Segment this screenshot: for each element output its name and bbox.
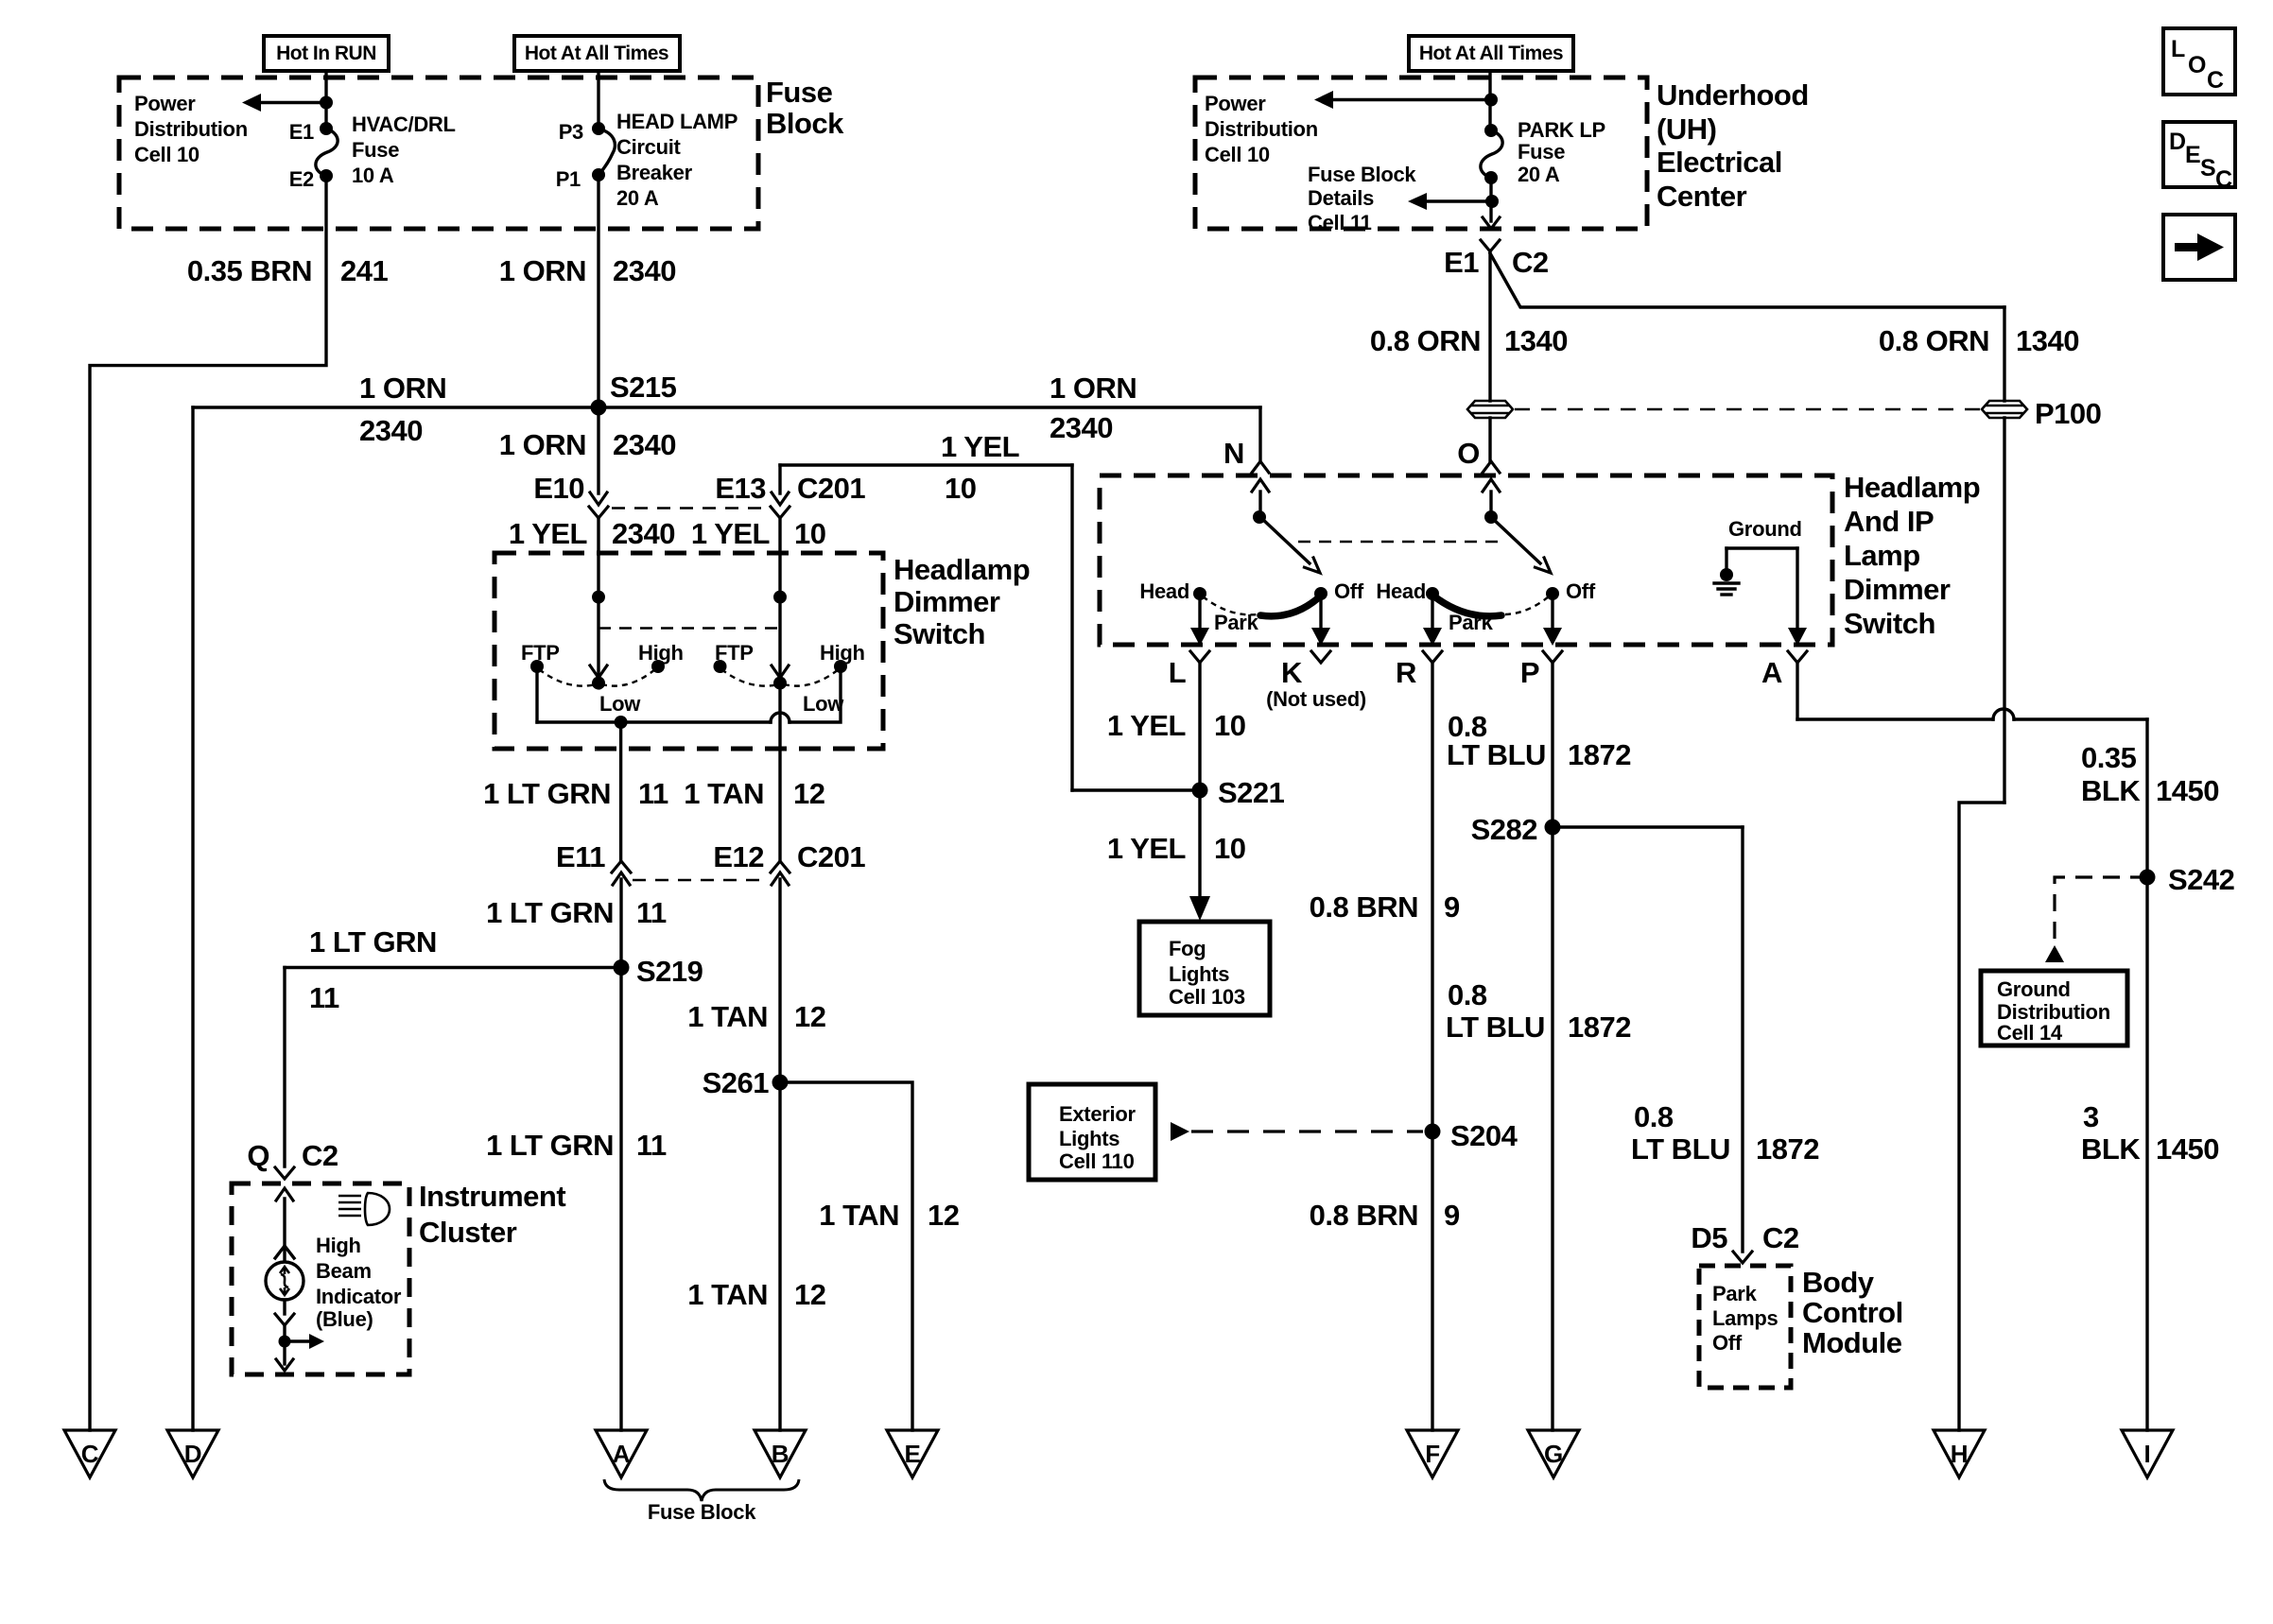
svg-text:10 A: 10 A	[352, 164, 394, 187]
svg-text:1 ORN: 1 ORN	[499, 254, 586, 287]
svg-text:HEAD LAMP: HEAD LAMP	[616, 110, 737, 133]
svg-text:Breaker: Breaker	[616, 161, 693, 184]
svg-text:P1: P1	[556, 167, 581, 191]
svg-text:Instrument: Instrument	[419, 1180, 565, 1213]
svg-text:1 TAN: 1 TAN	[819, 1199, 899, 1232]
svg-text:1 ORN: 1 ORN	[359, 371, 446, 405]
svg-text:E1: E1	[289, 120, 314, 144]
svg-text:HVAC/DRL: HVAC/DRL	[352, 112, 456, 136]
svg-text:1 YEL: 1 YEL	[1107, 832, 1186, 865]
svg-text:E: E	[904, 1440, 920, 1468]
svg-text:Head: Head	[1139, 579, 1189, 603]
svg-text:High: High	[316, 1234, 361, 1257]
svg-text:Headlamp: Headlamp	[1844, 471, 1980, 504]
svg-text:Details: Details	[1308, 186, 1374, 210]
svg-text:N: N	[1223, 437, 1244, 470]
svg-text:0.8 ORN: 0.8 ORN	[1370, 324, 1481, 357]
svg-text:Distribution: Distribution	[134, 117, 248, 141]
svg-text:1 ORN: 1 ORN	[1050, 371, 1136, 405]
svg-text:Circuit: Circuit	[616, 135, 682, 159]
svg-text:0.8 ORN: 0.8 ORN	[1879, 324, 1989, 357]
svg-text:20 A: 20 A	[1518, 163, 1560, 186]
svg-text:R: R	[1396, 656, 1416, 689]
svg-text:S261: S261	[703, 1066, 770, 1099]
svg-text:0.8 BRN: 0.8 BRN	[1310, 1199, 1418, 1232]
svg-text:Power: Power	[134, 92, 196, 115]
svg-text:Off: Off	[1334, 579, 1364, 603]
svg-text:10: 10	[945, 472, 976, 505]
svg-text:0.35: 0.35	[2081, 741, 2137, 774]
svg-text:S242: S242	[2168, 863, 2234, 896]
svg-text:11: 11	[636, 1129, 667, 1162]
svg-text:E: E	[2185, 142, 2200, 168]
svg-text:P100: P100	[2035, 397, 2101, 430]
svg-text:S221: S221	[1218, 776, 1285, 809]
svg-text:11: 11	[309, 981, 339, 1014]
svg-text:Park: Park	[1214, 611, 1259, 634]
svg-text:241: 241	[340, 254, 388, 287]
svg-text:12: 12	[793, 777, 824, 810]
svg-text:Off: Off	[1712, 1331, 1743, 1355]
svg-text:Fuse Block: Fuse Block	[648, 1500, 756, 1524]
svg-text:Cell 110: Cell 110	[1059, 1149, 1135, 1173]
svg-text:F: F	[1425, 1440, 1440, 1468]
svg-text:Off: Off	[1566, 579, 1596, 603]
svg-text:Module: Module	[1802, 1326, 1902, 1359]
svg-text:10: 10	[1214, 709, 1245, 742]
svg-text:Ground: Ground	[1728, 517, 1802, 541]
svg-text:I: I	[2144, 1440, 2151, 1468]
svg-text:Fuse Block: Fuse Block	[1308, 163, 1416, 186]
svg-text:P: P	[1520, 656, 1539, 689]
svg-text:LT BLU: LT BLU	[1631, 1132, 1730, 1166]
svg-text:1 ORN: 1 ORN	[499, 428, 586, 461]
svg-text:C2: C2	[1762, 1221, 1799, 1254]
svg-text:A: A	[1761, 656, 1782, 689]
svg-text:2340: 2340	[359, 414, 423, 447]
svg-text:9: 9	[1444, 890, 1460, 924]
svg-text:(Blue): (Blue)	[316, 1307, 373, 1331]
svg-text:C2: C2	[302, 1139, 338, 1172]
svg-text:10: 10	[794, 517, 825, 550]
svg-text:1340: 1340	[1504, 324, 1568, 357]
svg-text:C201: C201	[797, 840, 865, 873]
svg-text:2340: 2340	[1050, 411, 1113, 444]
svg-text:Cell 10: Cell 10	[134, 143, 200, 166]
svg-text:Headlamp: Headlamp	[894, 553, 1030, 586]
svg-text:C: C	[2215, 166, 2232, 193]
svg-text:Fuse: Fuse	[766, 76, 833, 109]
svg-text:2340: 2340	[613, 254, 676, 287]
svg-text:S215: S215	[610, 371, 677, 404]
svg-text:High: High	[820, 641, 865, 665]
svg-text:11: 11	[638, 777, 668, 810]
svg-text:12: 12	[928, 1199, 959, 1232]
svg-text:BLK: BLK	[2081, 1132, 2141, 1166]
svg-text:1 TAN: 1 TAN	[687, 1000, 768, 1033]
svg-text:K: K	[1281, 656, 1303, 689]
svg-text:9: 9	[1444, 1199, 1460, 1232]
svg-text:Cluster: Cluster	[419, 1216, 517, 1249]
svg-text:S204: S204	[1450, 1119, 1518, 1152]
svg-text:1 LT GRN: 1 LT GRN	[309, 925, 437, 959]
svg-text:E11: E11	[556, 840, 605, 873]
svg-text:Underhood: Underhood	[1657, 78, 1809, 112]
svg-text:P3: P3	[559, 120, 583, 144]
svg-text:1 YEL: 1 YEL	[941, 430, 1019, 463]
svg-text:FTP: FTP	[521, 641, 560, 665]
svg-text:Hot In RUN: Hot In RUN	[276, 43, 376, 64]
svg-text:L: L	[2171, 36, 2185, 62]
svg-text:Body: Body	[1802, 1266, 1875, 1299]
svg-text:Fog: Fog	[1169, 937, 1206, 960]
svg-text:3: 3	[2083, 1100, 2099, 1133]
svg-text:1 TAN: 1 TAN	[684, 777, 764, 810]
svg-text:1 LT GRN: 1 LT GRN	[483, 777, 611, 810]
svg-text:S: S	[2200, 155, 2215, 181]
svg-text:1872: 1872	[1568, 738, 1631, 771]
svg-text:Hot At All Times: Hot At All Times	[525, 43, 668, 64]
svg-text:E13: E13	[715, 472, 766, 505]
svg-text:1872: 1872	[1568, 1011, 1631, 1044]
svg-text:0.8: 0.8	[1634, 1100, 1674, 1133]
svg-text:Cell 10: Cell 10	[1205, 143, 1270, 166]
svg-text:1 YEL: 1 YEL	[691, 517, 770, 550]
svg-text:Control: Control	[1802, 1296, 1903, 1329]
svg-text:Cell 14: Cell 14	[1997, 1021, 2063, 1045]
svg-text:Lights: Lights	[1169, 962, 1229, 986]
svg-text:D5: D5	[1691, 1221, 1727, 1254]
svg-text:Park: Park	[1712, 1282, 1758, 1305]
svg-text:Q: Q	[247, 1139, 269, 1172]
svg-text:S282: S282	[1471, 813, 1537, 846]
svg-text:1 LT GRN: 1 LT GRN	[486, 1129, 614, 1162]
svg-text:Block: Block	[766, 107, 844, 140]
svg-text:Center: Center	[1657, 180, 1747, 213]
svg-text:1 LT GRN: 1 LT GRN	[486, 896, 614, 929]
svg-text:Power: Power	[1205, 92, 1266, 115]
svg-text:E10: E10	[533, 472, 584, 505]
svg-text:10: 10	[1214, 832, 1245, 865]
svg-text:C201: C201	[797, 472, 865, 505]
svg-text:Low: Low	[803, 692, 844, 716]
svg-text:Cell 103: Cell 103	[1169, 985, 1245, 1009]
svg-text:Beam: Beam	[316, 1259, 372, 1283]
svg-text:Switch: Switch	[894, 617, 985, 650]
svg-text:1 YEL: 1 YEL	[509, 517, 587, 550]
svg-text:C2: C2	[1512, 246, 1549, 279]
svg-text:0.8 BRN: 0.8 BRN	[1310, 890, 1418, 924]
svg-text:11: 11	[636, 896, 667, 929]
svg-text:(UH): (UH)	[1657, 112, 1716, 146]
svg-text:Hot At All Times: Hot At All Times	[1419, 43, 1563, 64]
svg-text:Park: Park	[1449, 611, 1494, 634]
svg-text:S219: S219	[636, 955, 703, 988]
svg-text:Fuse: Fuse	[352, 138, 399, 162]
svg-text:O: O	[1457, 437, 1480, 470]
svg-text:2340: 2340	[612, 517, 675, 550]
svg-text:1 TAN: 1 TAN	[687, 1278, 768, 1311]
svg-text:And IP: And IP	[1844, 505, 1934, 538]
svg-text:O: O	[2188, 52, 2206, 78]
svg-text:Dimmer: Dimmer	[1844, 573, 1951, 606]
svg-text:LT BLU: LT BLU	[1446, 1011, 1545, 1044]
svg-text:BLK: BLK	[2081, 774, 2141, 807]
svg-text:1450: 1450	[2156, 1132, 2219, 1166]
svg-text:(Not used): (Not used)	[1266, 687, 1366, 711]
svg-text:12: 12	[794, 1278, 825, 1311]
svg-text:Fuse: Fuse	[1518, 140, 1565, 164]
svg-text:Indicator: Indicator	[316, 1285, 402, 1308]
svg-text:Ground: Ground	[1997, 977, 2071, 1001]
svg-text:Switch: Switch	[1844, 607, 1935, 640]
svg-text:1450: 1450	[2156, 774, 2219, 807]
svg-text:20 A: 20 A	[616, 186, 659, 210]
svg-text:L: L	[1169, 656, 1186, 689]
svg-text:2340: 2340	[613, 428, 676, 461]
svg-text:Electrical: Electrical	[1657, 146, 1782, 179]
svg-text:1340: 1340	[2016, 324, 2079, 357]
svg-text:Head: Head	[1376, 579, 1426, 603]
svg-text:1872: 1872	[1756, 1132, 1819, 1166]
svg-text:Exterior: Exterior	[1059, 1102, 1136, 1126]
svg-text:0.35 BRN: 0.35 BRN	[187, 254, 312, 287]
svg-text:1 YEL: 1 YEL	[1107, 709, 1186, 742]
svg-text:Distribution: Distribution	[1205, 117, 1318, 141]
svg-text:0.8: 0.8	[1448, 978, 1487, 1011]
svg-text:Lamp: Lamp	[1844, 539, 1920, 572]
svg-text:Lights: Lights	[1059, 1127, 1119, 1150]
svg-text:E1: E1	[1444, 246, 1479, 279]
svg-text:FTP: FTP	[715, 641, 754, 665]
svg-text:E2: E2	[289, 167, 314, 191]
svg-text:D: D	[2169, 129, 2186, 155]
svg-text:Cell 11: Cell 11	[1308, 211, 1372, 234]
svg-text:High: High	[638, 641, 684, 665]
svg-text:12: 12	[794, 1000, 825, 1033]
svg-text:Low: Low	[599, 692, 641, 716]
svg-text:LT BLU: LT BLU	[1447, 738, 1546, 771]
svg-text:E12: E12	[713, 840, 764, 873]
svg-text:C: C	[2207, 67, 2224, 94]
svg-text:Dimmer: Dimmer	[894, 585, 1000, 618]
svg-text:Lamps: Lamps	[1712, 1306, 1778, 1330]
svg-text:PARK LP: PARK LP	[1518, 118, 1605, 142]
